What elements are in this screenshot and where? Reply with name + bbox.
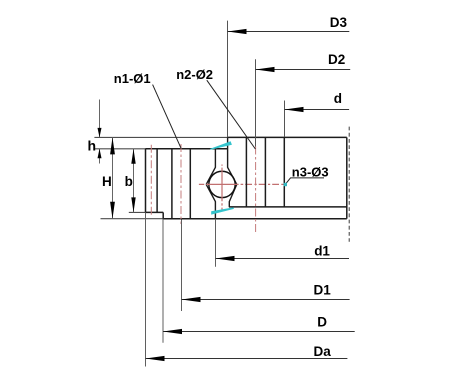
node bolt hole n2 axis (red centerline)	[255, 147, 257, 235]
leader n1	[153, 85, 181, 149]
seal lower (cyan wedge)	[211, 207, 234, 214]
node bolt hole axis x=151 (red centerline)	[150, 145, 152, 217]
dimension H line and arrows	[110, 137, 115, 218]
dimension Da extension line	[145, 212, 147, 366]
svg-text:D2: D2	[328, 52, 345, 67]
dimension d line with arrow	[285, 107, 350, 112]
dimension D extension line	[162, 219, 164, 343]
wire raceway left wall upper	[206, 149, 215, 185]
wire bottom face line L5 (+ extension left)	[101, 218, 347, 220]
svg-text:h: h	[88, 137, 97, 153]
svg-text:Da: Da	[314, 344, 332, 359]
node bolt hole n1 axis (red centerline)	[180, 144, 182, 224]
svg-text:H: H	[102, 174, 112, 189]
wire inner ring bore edge	[145, 149, 147, 213]
dimension b line and arrows	[131, 149, 135, 213]
wire bolt hole n2 right wall	[264, 137, 266, 207]
wire outer ring bottom face line L3	[229, 206, 347, 208]
dimension d extension line	[284, 101, 286, 138]
dimension D3 extension line	[227, 21, 229, 137]
dimension D line with arrow	[163, 329, 355, 334]
dimension h line and arrows	[98, 100, 102, 164]
dimension D2 line with arrow	[256, 67, 351, 72]
svg-text:b: b	[125, 174, 133, 189]
wire outer ring right edge	[346, 137, 348, 218]
wire raceway right wall upper	[228, 137, 237, 184]
wire inner ring recess bottom line L4 (+ extension left)	[129, 211, 163, 213]
dimension D1 extension line	[181, 220, 183, 312]
wire raceway left wall lower	[206, 184, 215, 218]
node ball vertical centerline (red)	[221, 165, 223, 212]
wire bolt hole n2 left wall	[245, 137, 247, 207]
wire filling plug hole right wall	[156, 149, 158, 213]
dimension d1 extension line	[215, 219, 217, 267]
wire bolt hole n1 left wall	[171, 149, 173, 219]
wire raceway right wall lower	[229, 184, 237, 207]
wire inner ring top face line L2 (+ extension left)	[94, 148, 227, 150]
wire step edge at x=163	[162, 212, 164, 218]
svg-text:D: D	[317, 314, 327, 329]
svg-text:n3-Ø3: n3-Ø3	[292, 165, 329, 180]
wire outer ring bore wall (d reference)	[283, 137, 285, 207]
dimension D2 extension line	[255, 59, 257, 146]
ball (rolling element)	[209, 171, 235, 197]
dimension D1 line with arrow	[182, 297, 350, 302]
dimension Da line with arrow	[146, 356, 348, 361]
svg-text:D3: D3	[330, 15, 348, 30]
seal upper (cyan wedge)	[210, 141, 232, 150]
dimension D3 line with arrow	[228, 29, 350, 34]
svg-text:D1: D1	[314, 282, 332, 297]
svg-text:n2-Ø2: n2-Ø2	[176, 67, 213, 82]
wire gear pitch dashed line at right	[348, 127, 350, 242]
node n3 hole horizontal axis (red)	[199, 183, 285, 185]
svg-text:d1: d1	[314, 244, 330, 259]
wire bolt hole n1 right wall	[189, 149, 191, 219]
svg-text:d: d	[334, 91, 342, 106]
wire top face line L1 (outer ring top face + extension left)	[94, 136, 346, 138]
svg-text:n1-Ø1: n1-Ø1	[114, 71, 151, 86]
leader n2	[207, 80, 256, 149]
dimension d1 line with arrow	[216, 256, 350, 261]
leader n3 with cyan dot	[284, 178, 324, 186]
